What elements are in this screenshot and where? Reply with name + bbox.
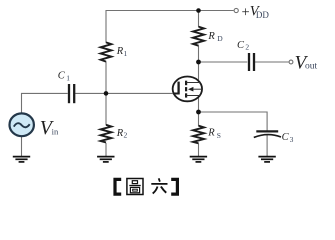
- wire C3 to ground: [266, 135, 268, 157]
- MOSFET gate bar: [177, 82, 179, 95]
- svg-text:R: R: [207, 31, 215, 42]
- ground under R2: [97, 157, 114, 162]
- resistor R1: [101, 42, 112, 61]
- ground under RS: [190, 157, 207, 162]
- svg-text:DD: DD: [256, 10, 269, 20]
- wire C1 to gate node: [75, 92, 106, 94]
- wire source node to C3: [199, 112, 268, 131]
- svg-text:2: 2: [124, 131, 128, 140]
- svg-text:C: C: [237, 40, 245, 51]
- svg-text:C: C: [282, 132, 290, 143]
- wire R1 branch upper: [105, 10, 107, 43]
- svg-text:R: R: [207, 127, 215, 138]
- svg-text:2: 2: [245, 43, 249, 52]
- wire R2 to ground: [105, 143, 107, 157]
- ground under Vin: [13, 157, 30, 162]
- svg-text:1: 1: [124, 49, 128, 58]
- node dot drain: [196, 60, 201, 65]
- wire C2 to Vout terminal: [255, 61, 289, 63]
- node dot source: [196, 110, 201, 115]
- AC source Vin: [10, 113, 34, 136]
- wire RD branch upper: [198, 11, 200, 28]
- wire RD to drain node: [198, 46, 200, 63]
- resistor RS: [193, 126, 204, 144]
- node dot rail/RD: [196, 8, 201, 13]
- MOSFET Q1: [173, 77, 202, 102]
- wire top rail VDD: [106, 10, 234, 12]
- terminal +VDD: [234, 8, 238, 12]
- MOSFET channel dash bottom (source): [185, 93, 187, 97]
- MOSFET drain internal lead: [187, 82, 201, 84]
- wire RS to ground: [198, 143, 200, 156]
- wire Vin top to C1: [22, 93, 68, 113]
- terminal Vout: [289, 60, 293, 64]
- node dot gate: [104, 91, 109, 96]
- svg-text:D: D: [217, 34, 223, 43]
- caption char LIU (six): [151, 178, 167, 193]
- svg-text:S: S: [217, 131, 221, 140]
- svg-text:3: 3: [290, 135, 294, 144]
- wire source node to RS: [198, 112, 200, 126]
- caption figure six: [115, 178, 177, 194]
- caption char TU (figure): [127, 179, 143, 195]
- MOSFET source internal lead: [187, 95, 201, 97]
- caption bracket right: [171, 179, 177, 194]
- capacitor C1: [68, 84, 70, 103]
- capacitor C2: [248, 53, 250, 71]
- MOSFET body arrow: [188, 87, 193, 92]
- svg-text:1: 1: [66, 73, 70, 82]
- svg-text:C: C: [58, 71, 66, 82]
- svg-text:out: out: [305, 62, 318, 72]
- MOSFET gate foot: [173, 93, 180, 95]
- wire gate node to R2: [105, 93, 107, 125]
- wire Vin bottom to ground: [21, 136, 23, 156]
- caption bracket left: [115, 179, 121, 194]
- wire drain node down into MOSFET: [198, 62, 200, 112]
- wire gate lead: [106, 92, 174, 94]
- capacitor C3: [256, 130, 278, 132]
- ground under C3: [258, 157, 275, 162]
- resistor RD: [193, 27, 204, 46]
- MOSFET channel dash top (drain): [185, 81, 187, 86]
- wire R1 to gate node: [105, 61, 107, 93]
- resistor R2: [101, 125, 112, 143]
- MOSFET channel dash middle (body): [185, 87, 187, 91]
- svg-text:in: in: [52, 126, 59, 136]
- svg-text:+: +: [242, 4, 250, 20]
- wire drain node to C2: [199, 61, 248, 63]
